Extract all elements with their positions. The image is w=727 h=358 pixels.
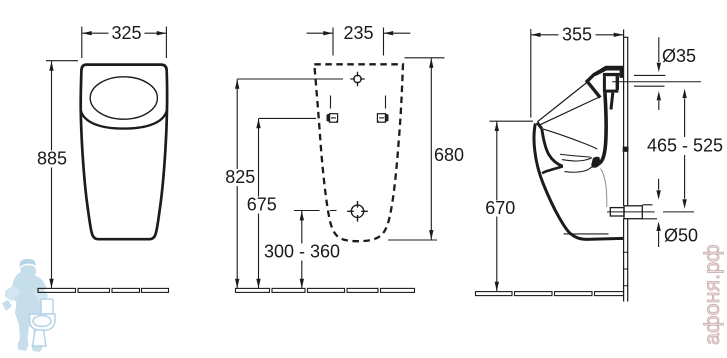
dimension 885 top tick bbox=[46, 60, 78, 62]
svg-text:670: 670 bbox=[485, 198, 515, 218]
svg-text:675: 675 bbox=[247, 195, 277, 215]
watermark toilet bbox=[30, 299, 56, 346]
bowl basin arc bbox=[560, 154, 591, 157]
dimension 680 extension lines bbox=[388, 58, 445, 240]
dimension 300-360 line and arrows bbox=[301, 211, 303, 288]
inlet reference lines bbox=[634, 75, 666, 86]
urinal back J line bbox=[592, 93, 606, 166]
floor hatch under front view bbox=[38, 288, 169, 292]
wall line bbox=[623, 30, 628, 302]
outlet cross mark bbox=[347, 201, 368, 222]
side view bottom inner line bbox=[564, 233, 609, 235]
dimension 235 extension lines bbox=[333, 28, 384, 56]
wall tick marks bbox=[623, 252, 629, 286]
outlet spigot socket bbox=[624, 206, 642, 219]
rear view dashed outline bbox=[314, 64, 403, 241]
inlet housing bottom bar bbox=[605, 90, 618, 93]
inlet housing mid bar bbox=[603, 73, 620, 76]
side view front outer edge bbox=[534, 124, 624, 240]
outlet spigot narrow part bbox=[610, 208, 624, 216]
side view top section cut bar bbox=[587, 68, 606, 97]
outlet reference lines bbox=[643, 205, 658, 219]
dimension O35 line and arrows bbox=[658, 37, 660, 110]
bowl bottom cut bar bbox=[542, 166, 563, 173]
inlet housing right step bbox=[620, 71, 624, 78]
front view bowl ellipse bbox=[90, 77, 157, 119]
dimension 885 line and arrows bbox=[51, 61, 53, 288]
svg-text:825: 825 bbox=[225, 167, 255, 187]
front view rim lower curve bbox=[81, 111, 167, 129]
inlet centerline bbox=[612, 81, 701, 83]
side view top deck line bbox=[537, 82, 587, 122]
dimension 465-525 line and arrows bbox=[684, 99, 686, 199]
supply pipe right segment bbox=[611, 93, 613, 110]
front view body outline bbox=[81, 65, 167, 240]
dimension 675 line and arrows bbox=[258, 119, 260, 289]
inlet housing top bar bbox=[593, 66, 623, 76]
dimension 670 top tick bbox=[490, 120, 534, 122]
dimension 825 leader bbox=[237, 78, 343, 80]
drain channel line bbox=[601, 169, 607, 208]
fixing hole leader lines bbox=[331, 96, 386, 109]
dimension 675 leader bbox=[259, 117, 317, 119]
dimension 325 extension lines bbox=[82, 27, 167, 59]
water inlet cross mark bbox=[350, 72, 364, 86]
dimension 355 extension line bbox=[530, 29, 532, 118]
dimension O50 line and arrows bbox=[658, 179, 660, 247]
svg-text:355: 355 bbox=[562, 25, 592, 45]
dimension 325 line and arrows bbox=[82, 32, 166, 34]
outlet centerline bbox=[607, 211, 694, 213]
side view front rim hook bbox=[537, 123, 542, 129]
floor hatch under side view bbox=[476, 292, 624, 296]
right fixing hole symbol bbox=[377, 114, 388, 123]
svg-text:325: 325 bbox=[111, 23, 141, 43]
side view bowl slope line bbox=[539, 97, 600, 125]
dimension 235 line and arrows bbox=[307, 32, 411, 34]
svg-text:афоня.рф: афоня.рф bbox=[700, 244, 724, 345]
dimension 680 line and arrows bbox=[430, 58, 432, 239]
svg-text:Ø35: Ø35 bbox=[662, 46, 696, 66]
floor hatch under rear view bbox=[236, 288, 415, 292]
inlet housing left wall bbox=[603, 76, 606, 92]
svg-text:235: 235 bbox=[343, 23, 373, 43]
left fixing hole symbol bbox=[327, 114, 338, 123]
bowl inner front wall bbox=[542, 129, 563, 167]
wall fixing bolt bbox=[623, 147, 629, 152]
dimension 670 line and arrows bbox=[496, 122, 498, 292]
svg-text:Ø50: Ø50 bbox=[664, 226, 698, 246]
inlet housing right wall bbox=[616, 76, 619, 90]
svg-text:300 - 360: 300 - 360 bbox=[264, 242, 340, 262]
dimension 355 line and arrows bbox=[531, 34, 623, 36]
watermark plumber figure bbox=[2, 259, 49, 352]
dimension 300-360 leader bbox=[294, 210, 337, 212]
svg-text:885: 885 bbox=[37, 149, 67, 169]
dimension 825 line and arrows bbox=[236, 79, 238, 288]
trap section blob bbox=[591, 157, 600, 168]
svg-text:680: 680 bbox=[434, 145, 464, 165]
svg-text:465 - 525: 465 - 525 bbox=[647, 136, 723, 156]
